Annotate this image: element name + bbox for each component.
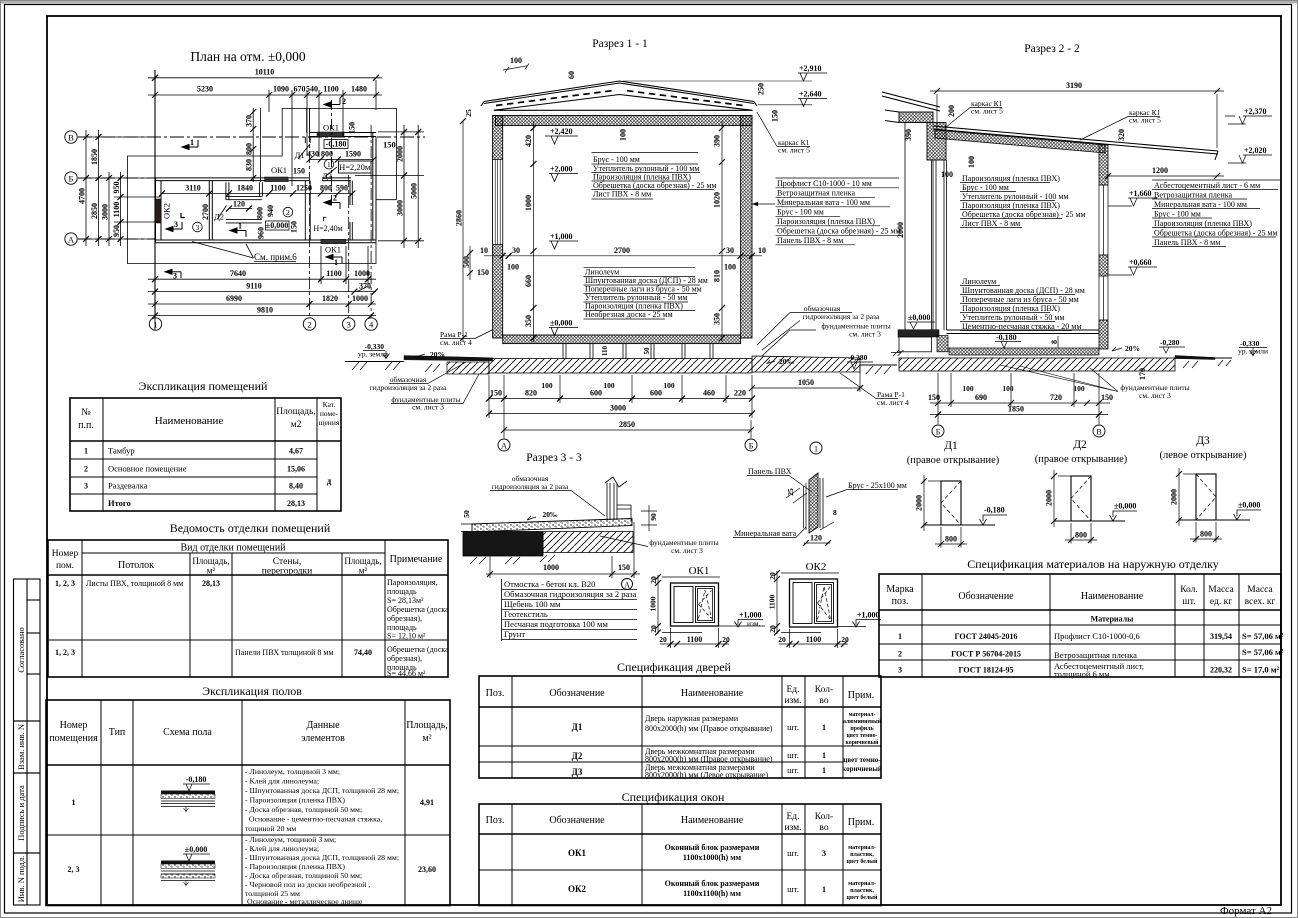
- svg-text:Спецификация окон: Спецификация окон: [622, 790, 725, 804]
- svg-text:1590: 1590: [345, 150, 361, 159]
- svg-text:460: 460: [703, 389, 715, 398]
- svg-text:Ветрозащитная пленка: Ветрозащитная пленка: [777, 189, 856, 198]
- svg-text:3: 3: [173, 272, 177, 281]
- svg-text:100: 100: [541, 381, 553, 390]
- boxed level ±0,000: [266, 221, 290, 230]
- svg-text:материал-: материал-: [848, 881, 876, 887]
- svg-text:Грунт: Грунт: [504, 629, 525, 639]
- bottom wall along axis А: [155, 240, 376, 243]
- svg-text:6990: 6990: [226, 294, 242, 303]
- svg-text:ГОСТ Р 56704-2015: ГОСТ Р 56704-2015: [951, 650, 1021, 659]
- svg-text:1, 2, 3: 1, 2, 3: [55, 579, 75, 588]
- svg-text:3: 3: [347, 320, 351, 330]
- svg-text:Н=2,20м: Н=2,20м: [339, 162, 371, 172]
- svg-text:370: 370: [359, 282, 371, 291]
- svg-text:950: 950: [112, 182, 121, 194]
- svg-text:(правое открывание): (правое открывание): [907, 455, 1000, 466]
- svg-text:- Линолеум, толщиной 3 мм;: - Линолеум, толщиной 3 мм;: [245, 767, 340, 776]
- svg-text:изм.: изм.: [784, 823, 801, 833]
- 1050 dim right: [749, 366, 863, 392]
- top dim 3190: [930, 88, 1224, 148]
- svg-text:Вид отделки помещений: Вид отделки помещений: [180, 543, 286, 554]
- svg-text:Кол.: Кол.: [1180, 585, 1198, 595]
- top dim line 5230|1090|670|540|1100|1480: [148, 80, 382, 186]
- left elevation marks: [550, 127, 573, 328]
- svg-text:пластик,: пластик,: [850, 852, 874, 858]
- table grid: [479, 676, 881, 778]
- svg-text:ед. кг: ед. кг: [1210, 597, 1232, 607]
- svg-text:ОК1: ОК1: [689, 565, 710, 577]
- svg-text:Схема пола: Схема пола: [163, 727, 212, 738]
- svg-text:1, 2, 3: 1, 2, 3: [55, 648, 75, 657]
- svg-text:100: 100: [967, 156, 976, 168]
- svg-text:350: 350: [524, 315, 533, 327]
- svg-text:Д1: Д1: [572, 722, 583, 732]
- section arrow 1 bottom: [230, 228, 246, 237]
- svg-text:Основное помещение: Основное помещение: [108, 464, 187, 474]
- svg-text:810: 810: [713, 270, 722, 282]
- section arrow 3 bottom: [165, 269, 181, 278]
- svg-text:+2,020: +2,020: [1244, 146, 1267, 155]
- svg-text:шт.: шт.: [1182, 597, 1195, 607]
- svg-text:- Шпунтованная доска ДСП, толщ: - Шпунтованная доска ДСП, толщиной 28 мм…: [245, 786, 399, 795]
- svg-text:Поз.: Поз.: [486, 815, 505, 826]
- svg-text:S= 12,10 м²: S= 12,10 м²: [387, 632, 426, 641]
- svg-text:830: 830: [245, 159, 254, 171]
- right interior dim chain: [719, 121, 725, 342]
- svg-text:-0,180: -0,180: [186, 775, 207, 784]
- left stamp strip: Подпись и дата box: [14, 773, 41, 853]
- wall stud above: [607, 483, 617, 520]
- svg-text:алюминиевый: алюминиевый: [843, 718, 882, 725]
- svg-text:1100: 1100: [323, 85, 339, 94]
- blind area right + soil: [752, 356, 860, 372]
- svg-text:2850: 2850: [619, 420, 635, 429]
- svg-text:Панели ПВХ толщиной 8 мм: Панели ПВХ толщиной 8 мм: [235, 648, 334, 657]
- svg-text:шт.: шт.: [787, 848, 799, 858]
- svg-text:120: 120: [810, 534, 822, 543]
- svg-text:±0,000: ±0,000: [185, 845, 207, 854]
- svg-text:±0,000: ±0,000: [266, 221, 288, 230]
- porch slab left filled: [898, 330, 939, 337]
- svg-text:Асбестоцементный лист - 6 мм: Асбестоцементный лист - 6 мм: [1154, 181, 1260, 190]
- svg-text:Наименование: Наименование: [1081, 591, 1144, 602]
- svg-text:1250: 1250: [296, 184, 312, 193]
- svg-text:м²: м²: [422, 733, 431, 744]
- annex dim row 430/800/1590: [307, 157, 377, 163]
- svg-text:1: 1: [898, 632, 902, 641]
- svg-text:100: 100: [724, 263, 736, 272]
- svg-text:820: 820: [525, 389, 537, 398]
- svg-text:Спецификация материалов на нар: Спецификация материалов на наружную отде…: [967, 557, 1219, 571]
- svg-text:см. лист 3: см. лист 3: [849, 330, 881, 339]
- 120 dim: [803, 540, 831, 546]
- svg-text:Экспликация помещений: Экспликация помещений: [139, 379, 268, 393]
- svg-text:1000: 1000: [352, 294, 368, 303]
- svg-text:+0,660: +0,660: [1129, 258, 1152, 267]
- svg-text:Разрез 3 - 3: Разрез 3 - 3: [526, 452, 582, 464]
- Д3 level ±0,000: [1179, 519, 1250, 521]
- svg-text:во: во: [819, 823, 828, 833]
- svg-text:3110: 3110: [185, 184, 201, 193]
- Д2 leaf: [1071, 476, 1091, 521]
- svg-text:3: 3: [174, 220, 178, 229]
- svg-text:20: 20: [778, 635, 786, 644]
- svg-text:800: 800: [245, 143, 254, 155]
- svg-text:350: 350: [713, 313, 722, 325]
- svg-text:30: 30: [726, 246, 734, 255]
- svg-text:1100: 1100: [687, 635, 703, 644]
- svg-text:1100: 1100: [270, 184, 286, 193]
- svg-text:2: 2: [333, 194, 337, 203]
- right dim chain 5000: [415, 125, 421, 248]
- svg-text:Ед.: Ед.: [786, 685, 799, 695]
- svg-text:Ед.: Ед.: [786, 812, 799, 822]
- svg-text:п.п.: п.п.: [78, 420, 94, 431]
- svg-text:-0,280: -0,280: [1160, 338, 1180, 347]
- left stamp strip: Инв. N подл. box: [14, 853, 41, 905]
- studs below floor: [563, 344, 713, 359]
- svg-text:20: 20: [659, 635, 667, 644]
- svg-text:Примечание: Примечание: [390, 554, 443, 565]
- svg-text:+2,910: +2,910: [799, 64, 822, 73]
- svg-text:3: 3: [822, 849, 826, 858]
- svg-text:100: 100: [507, 263, 519, 272]
- svg-text:В: В: [68, 133, 74, 143]
- interior finish text block lower: [585, 268, 708, 320]
- Д3 dims: [1176, 468, 1196, 526]
- svg-text:Масса: Масса: [1247, 585, 1273, 595]
- svg-text:шт.: шт.: [787, 722, 799, 732]
- svg-text:поз.: поз.: [892, 596, 909, 607]
- svg-text:660: 660: [524, 275, 533, 287]
- hatched panel column: [809, 473, 818, 533]
- svg-text:1480: 1480: [351, 85, 367, 94]
- svg-text:S= 57,06 м²: S= 57,06 м²: [1242, 631, 1284, 641]
- svg-text:3000: 3000: [610, 404, 626, 413]
- svg-text:1850: 1850: [1008, 405, 1024, 414]
- svg-text:2000: 2000: [1045, 490, 1054, 506]
- svg-text:гидроизоляция за 2 раза: гидроизоляция за 2 раза: [492, 482, 569, 491]
- svg-text:10: 10: [758, 246, 766, 255]
- svg-text:3000: 3000: [396, 200, 405, 216]
- svg-text:шт.: шт.: [787, 750, 799, 760]
- svg-text:План на отм. ±0,000: План на отм. ±0,000: [190, 49, 305, 64]
- svg-text:3190: 3190: [1066, 81, 1082, 90]
- svg-text:Экспликация полов: Экспликация полов: [202, 684, 302, 698]
- left wall window: [493, 160, 503, 245]
- svg-text:Д1: Д1: [944, 440, 958, 452]
- interior dim row 3110/1840/1100/1250/800/590: [159, 191, 355, 197]
- svg-text:А: А: [501, 442, 507, 451]
- svg-text:- Пароизоляция (пленка ПВХ): - Пароизоляция (пленка ПВХ): [245, 796, 345, 805]
- svg-text:Д3: Д3: [322, 171, 332, 181]
- svg-text:Н=2,40м: Н=2,40м: [313, 224, 342, 233]
- svg-text:Подпись и дата: Подпись и дата: [16, 785, 26, 841]
- svg-text:320: 320: [1117, 129, 1126, 141]
- window ОК1 in bottom wall: [321, 239, 346, 243]
- svg-text:250: 250: [757, 83, 766, 95]
- svg-text:шт.: шт.: [787, 765, 799, 775]
- svg-text:1: 1: [814, 445, 818, 454]
- svg-text:Обрешетка (доска: Обрешетка (доска: [387, 605, 449, 614]
- svg-text:S= 28,13м²: S= 28,13м²: [387, 596, 424, 605]
- svg-text:Лист ПВХ - 8 мм: Лист ПВХ - 8 мм: [593, 190, 651, 199]
- svg-text:см. лист 3: см. лист 3: [1139, 391, 1171, 400]
- right wall hatched segments: [1099, 145, 1108, 185]
- svg-text:ОК1: ОК1: [271, 165, 287, 175]
- svg-text:1: 1: [822, 751, 826, 760]
- soil tick marks below: [470, 555, 555, 564]
- svg-text:950: 950: [112, 225, 121, 237]
- svg-text:Итого: Итого: [108, 498, 131, 508]
- svg-text:во: во: [819, 696, 828, 706]
- partition room3/room2: [209, 181, 212, 240]
- svg-text:100: 100: [619, 129, 628, 141]
- sloping roof hatched band: [935, 130, 1105, 153]
- svg-text:- Доска обрезная, толщиной 50: - Доска обрезная, толщиной 50 мм;: [245, 805, 362, 814]
- svg-text:2: 2: [307, 320, 311, 330]
- left interior dim chain: [531, 121, 537, 342]
- svg-text:Площадь,: Площадь,: [276, 407, 315, 417]
- svg-text:220,32: 220,32: [1210, 666, 1232, 675]
- bottom dim chain 7640/1100/1000: [148, 246, 376, 330]
- svg-text:шт.: шт.: [787, 884, 799, 894]
- svg-text:3000: 3000: [101, 204, 110, 220]
- svg-text:Геотекстиль: Геотекстиль: [504, 609, 548, 619]
- axis circle Б: [65, 172, 77, 184]
- svg-text:Линолеум: Линолеум: [962, 277, 996, 286]
- svg-text:1000: 1000: [543, 563, 559, 572]
- left stamp strip: Согласовано box: [14, 579, 41, 721]
- svg-text:ОК1: ОК1: [568, 848, 587, 858]
- svg-text:2: 2: [898, 650, 902, 659]
- svg-text:20: 20: [768, 625, 777, 633]
- svg-text:материал-: материал-: [848, 845, 876, 851]
- svg-text:Оконный блок размерами: Оконный блок размерами: [665, 879, 760, 888]
- svg-text:150: 150: [290, 221, 299, 233]
- svg-text:Номер: Номер: [52, 549, 79, 559]
- interior finish text block upper: [593, 155, 717, 199]
- floor band hatched: [503, 335, 741, 344]
- svg-text:Согласовано: Согласовано: [16, 627, 26, 672]
- svg-text:600: 600: [650, 389, 662, 398]
- ОК1 bottom window arrow and dims: [326, 255, 342, 264]
- section arrow 3 top: [166, 222, 182, 232]
- svg-text:9810: 9810: [257, 305, 273, 314]
- svg-text:720: 720: [1050, 393, 1062, 402]
- bottom dim chain 9810: [148, 313, 376, 319]
- svg-text:100: 100: [941, 170, 953, 179]
- svg-text:д: д: [327, 476, 332, 486]
- axis Б dash-dot line: [78, 177, 156, 179]
- svg-text:800х2000(h) мм (Правое открыва: 800х2000(h) мм (Правое открывание): [645, 724, 773, 733]
- axis circle Б: [745, 439, 757, 451]
- svg-text:Формат А2: Формат А2: [1220, 905, 1272, 917]
- axis А dash-dot line: [78, 238, 156, 240]
- svg-text:тощиной 20 мм: тощиной 20 мм: [245, 824, 296, 833]
- blind area left (отмостка): [404, 356, 493, 362]
- svg-text:Наименование: Наименование: [681, 815, 744, 826]
- table grid: [479, 804, 881, 906]
- svg-text:420: 420: [524, 135, 533, 147]
- partition on axis 3: [350, 181, 352, 240]
- svg-text:4,91: 4,91: [420, 798, 434, 807]
- svg-text:Б: Б: [749, 442, 754, 451]
- svg-text:390: 390: [713, 135, 722, 147]
- svg-text:100: 100: [510, 56, 522, 65]
- svg-text:Прим.: Прим.: [848, 817, 874, 828]
- left wall hatched: [493, 116, 503, 339]
- svg-text:2: 2: [286, 208, 290, 217]
- svg-text:590: 590: [336, 184, 348, 193]
- door Д3 leaf: [325, 167, 337, 177]
- svg-text:Минеральная вата - 100 мм: Минеральная вата - 100 мм: [777, 198, 870, 207]
- svg-text:20‰: 20‰: [779, 357, 795, 366]
- svg-text:В: В: [1096, 428, 1101, 437]
- svg-text:2000: 2000: [1170, 489, 1179, 505]
- axis 1 line: [154, 70, 156, 330]
- svg-text:элементов: элементов: [301, 733, 345, 744]
- svg-text:2: 2: [342, 97, 346, 106]
- bottom dim chain 9110/370: [148, 287, 378, 295]
- svg-text:Б: Б: [69, 174, 74, 184]
- svg-text:Брус - 25х100 мм: Брус - 25х100 мм: [848, 481, 907, 490]
- svg-text:+2,420: +2,420: [550, 127, 573, 136]
- svg-text:м²: м²: [207, 566, 216, 576]
- right wall hatched: [741, 116, 752, 339]
- svg-text:Минеральная вата: Минеральная вата: [734, 529, 797, 538]
- svg-text:+1,000: +1,000: [857, 611, 880, 620]
- svg-text:Пароизоляция (пленка ПВХ): Пароизоляция (пленка ПВХ): [962, 201, 1060, 210]
- svg-text:90: 90: [649, 513, 658, 521]
- svg-text:1: 1: [238, 222, 242, 231]
- dim 1850: [930, 412, 1108, 418]
- svg-text:8,40: 8,40: [289, 482, 303, 491]
- Д1 level -0,180: [924, 524, 995, 526]
- svg-text:Тип: Тип: [109, 727, 126, 738]
- svg-text:1: 1: [327, 160, 331, 169]
- svg-text:20%: 20%: [430, 350, 445, 359]
- svg-text:1050: 1050: [798, 378, 814, 387]
- svg-text:Д3: Д3: [1196, 435, 1210, 447]
- svg-text:4: 4: [369, 320, 374, 330]
- partition on axis 2: [305, 181, 310, 240]
- svg-text:20: 20: [722, 635, 730, 644]
- svg-text:Пароизоляция,: Пароизоляция,: [387, 578, 438, 587]
- svg-text:Обозначение: Обозначение: [958, 591, 1014, 602]
- svg-text:+2,000: +2,000: [550, 165, 573, 174]
- svg-text:960: 960: [257, 227, 266, 239]
- svg-text:S= 57,06 м²: S= 57,06 м²: [1242, 647, 1284, 657]
- section 2 cut line: [331, 100, 333, 206]
- svg-text:670: 670: [294, 85, 306, 94]
- svg-text:100: 100: [962, 384, 974, 393]
- svg-text:200: 200: [947, 105, 956, 117]
- room circle 2: [283, 207, 293, 217]
- svg-text:100: 100: [603, 381, 615, 390]
- svg-text:Брус - 100 мм: Брус - 100 мм: [962, 183, 1009, 192]
- section arrow 1 top: [182, 140, 198, 150]
- floor line and base: [947, 330, 1100, 334]
- hatched soil right of block: [543, 532, 633, 553]
- svg-text:гидроизоляция за 2 раза: гидроизоляция за 2 раза: [803, 312, 880, 321]
- layers list: [504, 579, 637, 639]
- svg-text:Разрез 2 - 2: Разрез 2 - 2: [1024, 43, 1080, 55]
- right finish text block: [1154, 181, 1278, 247]
- svg-text:430: 430: [307, 150, 319, 159]
- svg-text:См. прим.6: См. прим.6: [254, 252, 297, 262]
- interior dim 2700 line: [484, 253, 762, 259]
- window ОК1 in annex top wall: [317, 132, 344, 137]
- axis 3 line: [348, 175, 350, 330]
- svg-text:Панель ПВХ: Панель ПВХ: [748, 467, 792, 476]
- svg-text:ГОСТ 24045-2016: ГОСТ 24045-2016: [955, 632, 1018, 641]
- svg-text:Кол-: Кол-: [815, 812, 833, 822]
- closet partitions: [226, 182, 263, 223]
- отмостка concrete band speckled: [472, 519, 632, 533]
- svg-text:150: 150: [928, 393, 940, 402]
- svg-text:20: 20: [841, 635, 849, 644]
- top dim line 10110: [148, 75, 382, 81]
- interior finish text block lower: [962, 277, 1085, 331]
- section arrow 2 bottom: [324, 200, 340, 209]
- svg-text:20: 20: [649, 625, 658, 633]
- svg-text:см. лист 3: см. лист 3: [671, 546, 703, 555]
- svg-text:150: 150: [383, 140, 396, 150]
- svg-text:S= 44,66 м²: S= 44,66 м²: [387, 669, 426, 678]
- svg-text:20%: 20%: [1125, 344, 1140, 353]
- svg-text:Спецификация дверей: Спецификация дверей: [617, 660, 731, 674]
- svg-text:№: №: [81, 407, 91, 418]
- svg-text:940: 940: [266, 205, 275, 217]
- svg-text:3: 3: [84, 482, 88, 491]
- svg-text:800: 800: [945, 535, 957, 544]
- svg-text:20: 20: [649, 576, 658, 584]
- svg-text:2, 3: 2, 3: [68, 865, 80, 874]
- svg-text:- Шпунтованная доска ДСП, толщ: - Шпунтованная доска ДСП, толщиной 28 мм…: [245, 853, 399, 862]
- svg-text:(правое открывание): (правое открывание): [1035, 454, 1128, 465]
- svg-text:170: 170: [1138, 368, 1147, 380]
- svg-text:20‰: 20‰: [543, 510, 559, 519]
- foundation plates row: [489, 359, 752, 373]
- boxed Н=2,20м: [339, 161, 372, 173]
- svg-text:поме-: поме-: [320, 409, 339, 418]
- svg-text:Минеральная вата - 100 мм: Минеральная вата - 100 мм: [1154, 200, 1247, 209]
- svg-text:ОК2: ОК2: [806, 561, 827, 573]
- svg-text:-0,280: -0,280: [848, 353, 868, 362]
- svg-text:Необрезная доска - 25 мм: Необрезная доска - 25 мм: [585, 310, 673, 319]
- svg-text:Обмазочная гидроизоляция за 2: Обмазочная гидроизоляция за 2 раза: [504, 589, 637, 599]
- axis circle 4: [365, 318, 377, 330]
- svg-text:Оконный блок размерами: Оконный блок размерами: [665, 843, 760, 852]
- ОК2 frame: [790, 579, 838, 627]
- svg-text:3: 3: [196, 223, 200, 232]
- axis 4 line: [370, 125, 372, 330]
- ОК2 dims: [774, 570, 839, 636]
- left stamp strip: Взам. инв. N box: [14, 721, 41, 773]
- svg-text:Дверь наружная размерами: Дверь наружная размерами: [645, 714, 739, 723]
- svg-text:3: 3: [898, 666, 902, 675]
- svg-text:+1,660: +1,660: [1129, 189, 1152, 198]
- svg-text:1100: 1100: [806, 635, 822, 644]
- leader from wall to text block: [752, 203, 775, 205]
- corner mark room 3: [181, 213, 185, 218]
- svg-text:150: 150: [490, 389, 502, 398]
- svg-text:гидроизоляция за 2 раза: гидроизоляция за 2 раза: [370, 383, 447, 392]
- svg-text:1000: 1000: [524, 195, 533, 211]
- top wall band hatched: [496, 116, 753, 126]
